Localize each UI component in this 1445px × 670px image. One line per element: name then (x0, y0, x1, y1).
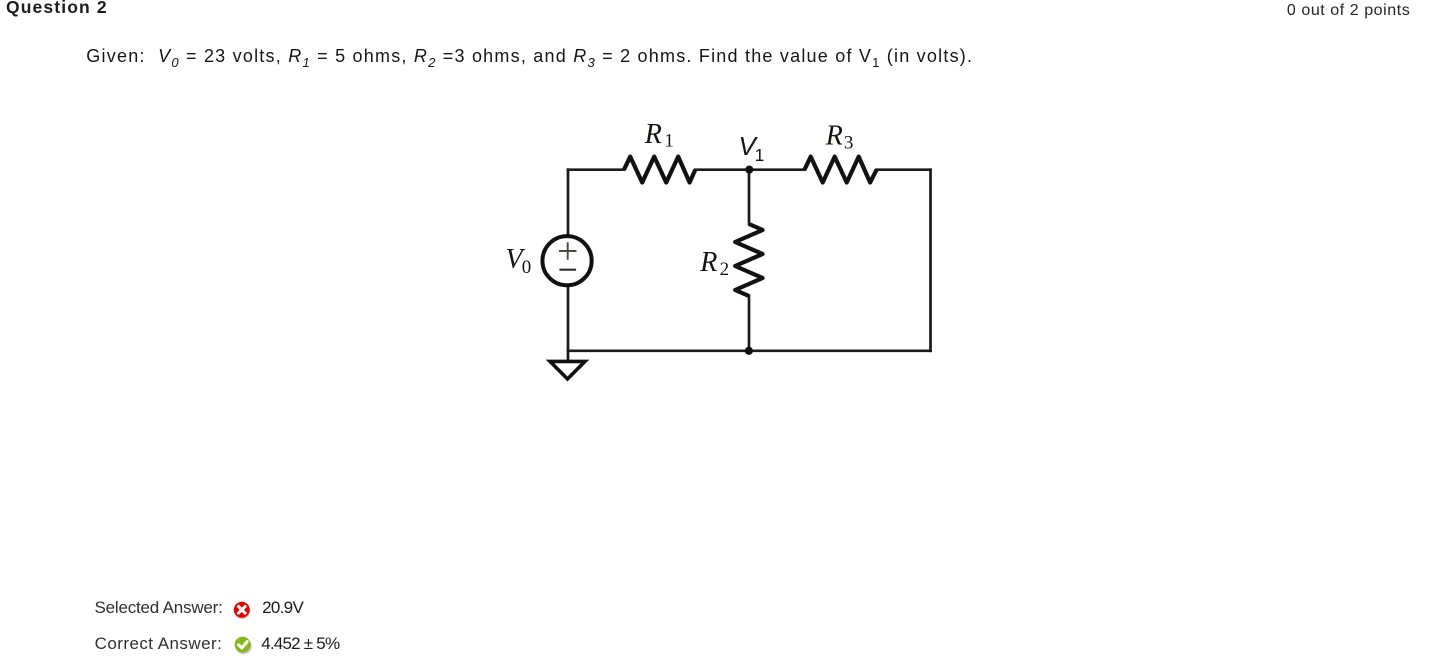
svg-text:R: R (699, 247, 717, 278)
svg-text:R: R (825, 121, 843, 152)
wire: node V1 down to R2 (748, 170, 751, 224)
minus sign inside source (559, 269, 576, 271)
selected answer row (95, 598, 223, 618)
points: 0 out of 2 points (1287, 2, 1410, 20)
svg-text:R: R (644, 119, 662, 150)
wire: source bottom to ground triangle (567, 285, 570, 360)
wire: left column vertical (top rail to source top) (567, 170, 570, 237)
plus sign inside source (559, 242, 577, 259)
given statement (86, 46, 973, 67)
voltage source V0 circle (542, 236, 591, 285)
wire: top rail between R1 and node V1 (695, 168, 749, 171)
resistor R3 (zigzag) (805, 157, 877, 183)
correct answer row (95, 634, 223, 654)
node V1 junction dot (745, 166, 753, 174)
svg-text:3: 3 (844, 133, 854, 154)
ground symbol (open triangle) (550, 361, 585, 379)
incorrect icon (red X) (233, 601, 253, 621)
wire: top-left rail from left column to R1 (568, 168, 624, 171)
svg-text:0: 0 (522, 257, 532, 278)
wire: top rail between node V1 and R3 (749, 168, 805, 171)
resistor R2 (vertical zigzag) (735, 224, 763, 296)
wire: right column vertical (929, 170, 932, 351)
resistor R1 (zigzag) (624, 157, 695, 183)
bottom junction dot (745, 347, 753, 355)
svg-text:1: 1 (664, 131, 674, 152)
wire: R2 bottom to bottom rail (748, 296, 751, 351)
wire: bottom rail (568, 349, 931, 352)
correct icon (green check) (234, 636, 254, 656)
wire: top rail from R3 to right corner (877, 168, 931, 171)
svg-text:2: 2 (720, 259, 730, 280)
heading: Question 2 (6, 0, 108, 18)
svg-text:1: 1 (755, 145, 765, 165)
